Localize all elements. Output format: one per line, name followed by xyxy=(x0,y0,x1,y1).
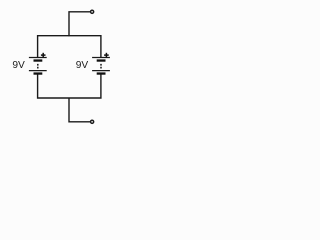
wire: bottom rail with lower-left and lower-right branch segments xyxy=(38,75,101,99)
terminal: bottom open-circle terminal xyxy=(91,120,94,123)
svg-text:9V: 9V xyxy=(12,60,25,71)
wire: top rail with upper-left and upper-right branch segments xyxy=(38,36,101,57)
wire: stub from top rail up and right to top terminal xyxy=(69,12,91,36)
battery right: 9V multicell battery symbol xyxy=(92,58,110,75)
polarity mark: + of left battery xyxy=(41,53,46,58)
terminal: top open-circle terminal xyxy=(91,10,94,13)
svg-text:9V: 9V xyxy=(76,60,89,71)
battery left: 9V multicell battery symbol xyxy=(29,58,47,75)
wire: stub from bottom rail down and right to bottom terminal xyxy=(69,98,91,122)
polarity mark: + of right battery xyxy=(104,53,109,58)
